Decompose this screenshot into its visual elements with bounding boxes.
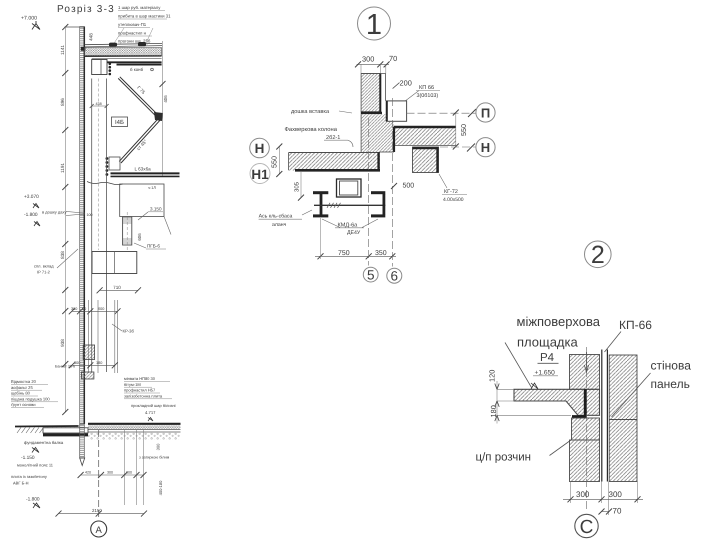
axis 5 dashed xyxy=(368,118,370,266)
step line xyxy=(380,151,394,153)
N axis line right xyxy=(440,146,476,148)
leader stinova xyxy=(612,373,651,417)
svg-text:1141: 1141 xyxy=(60,45,65,55)
dim 120 left xyxy=(497,388,514,390)
I-beam section xyxy=(313,191,328,194)
svg-text:бітум-1М: бітум-1М xyxy=(124,382,141,387)
svg-text:прогони шв. 25б: прогони шв. 25б xyxy=(118,39,151,44)
dim 180 left xyxy=(497,414,571,416)
hatched square block right xyxy=(413,147,439,173)
svg-text:щебінь 80: щебінь 80 xyxy=(11,391,31,396)
bottom dim 2150 xyxy=(59,513,145,515)
svg-text:ґрунт основи: ґрунт основи xyxy=(11,402,36,407)
svg-text:монолітний пояс 11: монолітний пояс 11 xyxy=(17,463,54,468)
axis bubble N left xyxy=(250,138,270,158)
footing dark bottom xyxy=(43,433,88,436)
bolt circle right xyxy=(151,68,154,71)
top-right note block xyxy=(118,5,171,44)
tick on axis xyxy=(160,81,166,87)
dim 550 left xyxy=(278,147,280,175)
diagonal from box corner xyxy=(164,217,171,235)
dim line y311 xyxy=(72,310,118,312)
svg-text:б конб: б конб xyxy=(130,67,144,72)
svg-text:профнастил Н57: профнастил Н57 xyxy=(124,388,156,393)
svg-text:Розріз 3-3: Розріз 3-3 xyxy=(57,4,115,15)
soil hatch xyxy=(17,427,75,433)
svg-text:606: 606 xyxy=(137,233,142,241)
dim 550 right xyxy=(455,113,457,147)
slab hatched polygon xyxy=(514,389,600,415)
left slab right end thick xyxy=(377,153,379,171)
svg-text:ц/п розчин: ц/п розчин xyxy=(476,452,532,464)
roof deck line xyxy=(85,55,162,57)
pier tip xyxy=(80,458,85,466)
svg-text:300: 300 xyxy=(156,443,161,450)
svg-text:Відмостка 20: Відмостка 20 xyxy=(11,379,37,384)
svg-text:70: 70 xyxy=(613,507,622,516)
svg-text:панель: панель xyxy=(651,377,690,391)
steel box column section xyxy=(337,179,362,197)
extension lines xyxy=(360,64,362,73)
dim line y365 xyxy=(72,364,115,366)
left slab thick bottom xyxy=(295,169,380,172)
svg-text:КМД-6а: КМД-6а xyxy=(338,222,359,228)
svg-text:L 63х6а: L 63х6а xyxy=(135,167,152,172)
svg-text:ч-1Л: ч-1Л xyxy=(148,186,156,190)
diagonal brace D1 xyxy=(118,78,157,117)
leader rozchyn xyxy=(550,440,572,456)
svg-text:120: 120 xyxy=(488,370,497,382)
top chord thick lines xyxy=(104,61,162,63)
wall top tie xyxy=(65,26,85,28)
left slab xyxy=(289,153,380,171)
svg-text:+3.070: +3.070 xyxy=(24,194,39,200)
axis A dashed xyxy=(98,430,100,520)
svg-text:залізобетонна плита: залізобетонна плита xyxy=(124,393,163,398)
roof membrane lines xyxy=(85,43,162,44)
svg-text:4.00х500: 4.00х500 xyxy=(443,197,464,203)
level mark on slab xyxy=(531,383,538,389)
svg-text:70: 70 xyxy=(389,54,397,63)
right band bottom line xyxy=(394,144,455,146)
wall panel hatched xyxy=(609,355,637,482)
thick L angle xyxy=(572,389,585,416)
svg-text:+1.650: +1.650 xyxy=(535,370,556,377)
wall thick right line xyxy=(379,74,381,113)
dim line 750/350 xyxy=(315,255,396,257)
svg-text:стінова: стінова xyxy=(651,359,692,373)
level -1.150 xyxy=(32,448,39,453)
svg-text:Фахверкова колона: Фахверкова колона xyxy=(285,126,338,133)
column bolts mid xyxy=(106,157,109,176)
P axis dashed xyxy=(407,112,477,114)
svg-text:І4Б: І4Б xyxy=(115,119,124,126)
svg-text:350: 350 xyxy=(375,250,387,257)
svg-text:2б2-1: 2б2-1 xyxy=(326,134,340,141)
anchor capsule xyxy=(123,217,132,245)
svg-text:180: 180 xyxy=(96,361,102,365)
svg-text:ДЕ4У: ДЕ4У xyxy=(347,230,361,236)
wall 70 strip line xyxy=(385,74,387,101)
leader KP66 to block xyxy=(405,91,420,102)
svg-text:з затиркою білим: з затиркою білим xyxy=(139,456,170,460)
svg-text:90: 90 xyxy=(82,307,86,311)
svg-text:838: 838 xyxy=(60,251,65,259)
axis bubble P xyxy=(476,103,495,122)
svg-text:1 шар руб. матеріалу: 1 шар руб. матеріалу xyxy=(118,5,161,10)
N1 label xyxy=(250,164,270,184)
footing pad small xyxy=(81,372,94,379)
svg-text:550: 550 xyxy=(459,124,468,136)
right notes block xyxy=(124,376,163,398)
dim ticks xyxy=(62,24,68,415)
svg-text:180: 180 xyxy=(489,405,498,417)
purlin top line xyxy=(92,58,162,60)
svg-text:А: А xyxy=(96,525,103,536)
dim 710 xyxy=(100,289,138,291)
wall upper hatched xyxy=(361,74,380,112)
svg-text:мінвата НП80 30: мінвата НП80 30 xyxy=(124,376,156,381)
svg-text:600: 600 xyxy=(98,307,104,311)
svg-text:-1.800: -1.800 xyxy=(24,212,38,218)
svg-text:КГ-72: КГ-72 xyxy=(444,189,458,195)
KP band two lines xyxy=(601,350,603,482)
svg-text:Н: Н xyxy=(481,140,490,155)
weld ticks on axis xyxy=(327,203,341,208)
svg-text:прокладний шар білизні: прокладний шар білизні xyxy=(131,403,176,408)
right axis line xyxy=(162,41,164,177)
column verticals xyxy=(91,79,93,373)
svg-text:550: 550 xyxy=(270,156,279,168)
svg-text:Р4: Р4 xyxy=(540,352,555,364)
svg-text:300: 300 xyxy=(576,490,590,499)
floor slab lines xyxy=(88,429,181,431)
leader ploshchadka xyxy=(505,343,532,388)
bottom extension lines xyxy=(570,482,572,504)
roof insulation hatched band xyxy=(85,48,162,56)
svg-text:300: 300 xyxy=(126,471,132,475)
svg-text:300: 300 xyxy=(71,307,77,311)
grid bubble A xyxy=(91,521,107,537)
footing strip xyxy=(43,428,88,433)
svg-text:710: 710 xyxy=(113,285,121,290)
svg-text:спл. вклад: спл. вклад xyxy=(34,264,54,269)
pier below ground xyxy=(80,424,85,458)
svg-text:Банкет 30-6: Банкет 30-6 xyxy=(55,365,75,369)
svg-text:300: 300 xyxy=(107,471,113,475)
svg-text:3.150: 3.150 xyxy=(150,207,162,212)
svg-text:-1.150: -1.150 xyxy=(21,455,35,461)
column lower hatched xyxy=(570,440,600,482)
svg-text:піщана подушка 100: піщана подушка 100 xyxy=(11,396,50,401)
grid bubble C xyxy=(575,514,598,537)
axis bubble 5 xyxy=(363,267,378,282)
svg-text:Ась кль-сбаса: Ась кль-сбаса xyxy=(259,214,293,220)
svg-text:П: П xyxy=(481,106,490,121)
wall joint line xyxy=(609,419,637,421)
svg-text:КР-3б: КР-3б xyxy=(123,329,135,334)
svg-text:5: 5 xyxy=(367,268,375,283)
svg-text:аланч: аланч xyxy=(272,222,287,228)
dim 438 column xyxy=(92,105,107,107)
wall right thick edge below band xyxy=(393,127,395,152)
detail bubble 2 xyxy=(585,241,612,268)
right band hatch xyxy=(394,128,456,145)
axis 6 dashed xyxy=(391,98,393,267)
joint bolts top xyxy=(109,63,112,76)
floor slab hatch band xyxy=(88,425,181,429)
axis bubble N right xyxy=(476,138,495,157)
dim 305 xyxy=(300,171,302,198)
svg-text:міжповерхова: міжповерхова xyxy=(517,314,601,329)
gusset at V xyxy=(154,112,163,121)
svg-text:305: 305 xyxy=(294,181,301,192)
svg-text:дошка вставка: дошка вставка xyxy=(291,109,330,115)
svg-text:400-180: 400-180 xyxy=(158,480,163,495)
svg-text:утеплювач-П1: утеплювач-П1 xyxy=(118,22,147,27)
wall strip xyxy=(80,27,85,425)
dim line y475 xyxy=(81,474,144,476)
svg-text:ПГБ-6: ПГБ-6 xyxy=(147,244,160,249)
dim line 300/70 xyxy=(357,63,389,65)
channel section right xyxy=(371,191,385,194)
svg-text:2: 2 xyxy=(591,241,605,269)
bottom chord thick band xyxy=(111,172,180,174)
svg-text:1191: 1191 xyxy=(60,163,65,173)
beam box under roof xyxy=(92,60,107,75)
svg-text:500: 500 xyxy=(403,183,415,190)
svg-text:1: 1 xyxy=(366,9,382,41)
svg-text:КП 66: КП 66 xyxy=(419,85,434,91)
axis arrow top xyxy=(584,352,588,372)
leader KP-66 xyxy=(605,332,622,353)
svg-text:профнастил н: профнастил н xyxy=(118,31,147,36)
left column upper hatched xyxy=(570,355,600,390)
svg-text:100: 100 xyxy=(87,213,93,217)
svg-text:3(0б103): 3(0б103) xyxy=(417,93,439,99)
column gusset mid xyxy=(109,157,120,170)
dim 70 xyxy=(602,511,610,513)
ground line left xyxy=(15,425,79,428)
lower mid box xyxy=(92,252,137,274)
lower verticals xyxy=(87,300,89,373)
axis bubble 6 xyxy=(387,268,402,283)
svg-text:420: 420 xyxy=(85,471,91,475)
boxed truss mark I4B xyxy=(112,117,128,127)
svg-text:АВГ Б-Н: АВГ Б-Н xyxy=(13,481,29,486)
svg-text:300: 300 xyxy=(609,490,623,499)
gravel dots band xyxy=(88,433,181,440)
roof blobs xyxy=(81,47,86,51)
svg-text:в дошку даху: в дошку даху xyxy=(42,210,66,215)
svg-text:КП-66: КП-66 xyxy=(619,318,652,332)
mortar step block hatched xyxy=(572,418,600,440)
wall mid hatched block xyxy=(361,114,394,152)
level symbol xyxy=(32,21,40,30)
svg-text:750: 750 xyxy=(338,250,350,257)
svg-text:6: 6 xyxy=(391,269,399,284)
diagonal brace D2 xyxy=(119,118,158,161)
left dimension chain line xyxy=(64,27,66,412)
svg-text:С: С xyxy=(580,517,594,538)
svg-text:4.717: 4.717 xyxy=(145,410,156,415)
svg-text:плита із газобетону: плита із газобетону xyxy=(11,474,47,479)
detail bubble 1 xyxy=(358,7,391,40)
left notes list xyxy=(11,379,50,407)
svg-text:асфальт 25: асфальт 25 xyxy=(11,385,33,390)
svg-text:448: 448 xyxy=(89,33,94,41)
rotated dims left chain xyxy=(60,45,65,347)
svg-text:200: 200 xyxy=(400,79,412,88)
svg-text:300: 300 xyxy=(362,55,374,64)
svg-text:2150: 2150 xyxy=(92,508,102,513)
label 200 with leader xyxy=(393,83,400,89)
tick before P bubble xyxy=(468,109,476,117)
svg-text:прибита в шар мастики 31: прибита в шар мастики 31 xyxy=(118,14,171,19)
svg-text:Н: Н xyxy=(255,141,265,156)
svg-text:406: 406 xyxy=(163,95,168,103)
roof leaders to notes xyxy=(115,28,125,43)
svg-text:ІР 71-2: ІР 71-2 xyxy=(37,270,51,275)
svg-text:фундаментна балка: фундаментна балка xyxy=(24,440,64,445)
svg-text:-1.800: -1.800 xyxy=(26,497,40,503)
ledge thick line xyxy=(361,112,382,114)
floor slab thick top xyxy=(88,423,181,425)
svg-text:896: 896 xyxy=(60,98,65,106)
wall right thick edge xyxy=(83,27,85,425)
right dim verticals xyxy=(123,430,125,505)
KP66 block square xyxy=(386,101,406,121)
flashing wavy line xyxy=(87,182,123,185)
svg-text:938: 938 xyxy=(60,339,65,347)
svg-text:+7.000: +7.000 xyxy=(21,16,37,22)
dim line 300 300 xyxy=(563,498,643,500)
column base pad xyxy=(83,345,94,360)
beam axis line xyxy=(314,204,385,206)
svg-text:площадка: площадка xyxy=(517,335,578,350)
axis dashed C xyxy=(586,347,588,511)
right band slab: thick top xyxy=(394,126,456,128)
svg-text:Н1: Н1 xyxy=(251,167,269,182)
upper mid box xyxy=(120,184,164,217)
